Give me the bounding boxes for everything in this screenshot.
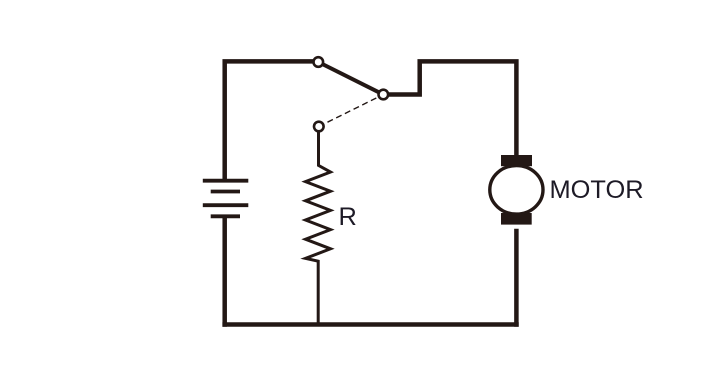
svg-text:MOTOR: MOTOR [550, 176, 644, 204]
svg-text:R: R [339, 203, 357, 231]
